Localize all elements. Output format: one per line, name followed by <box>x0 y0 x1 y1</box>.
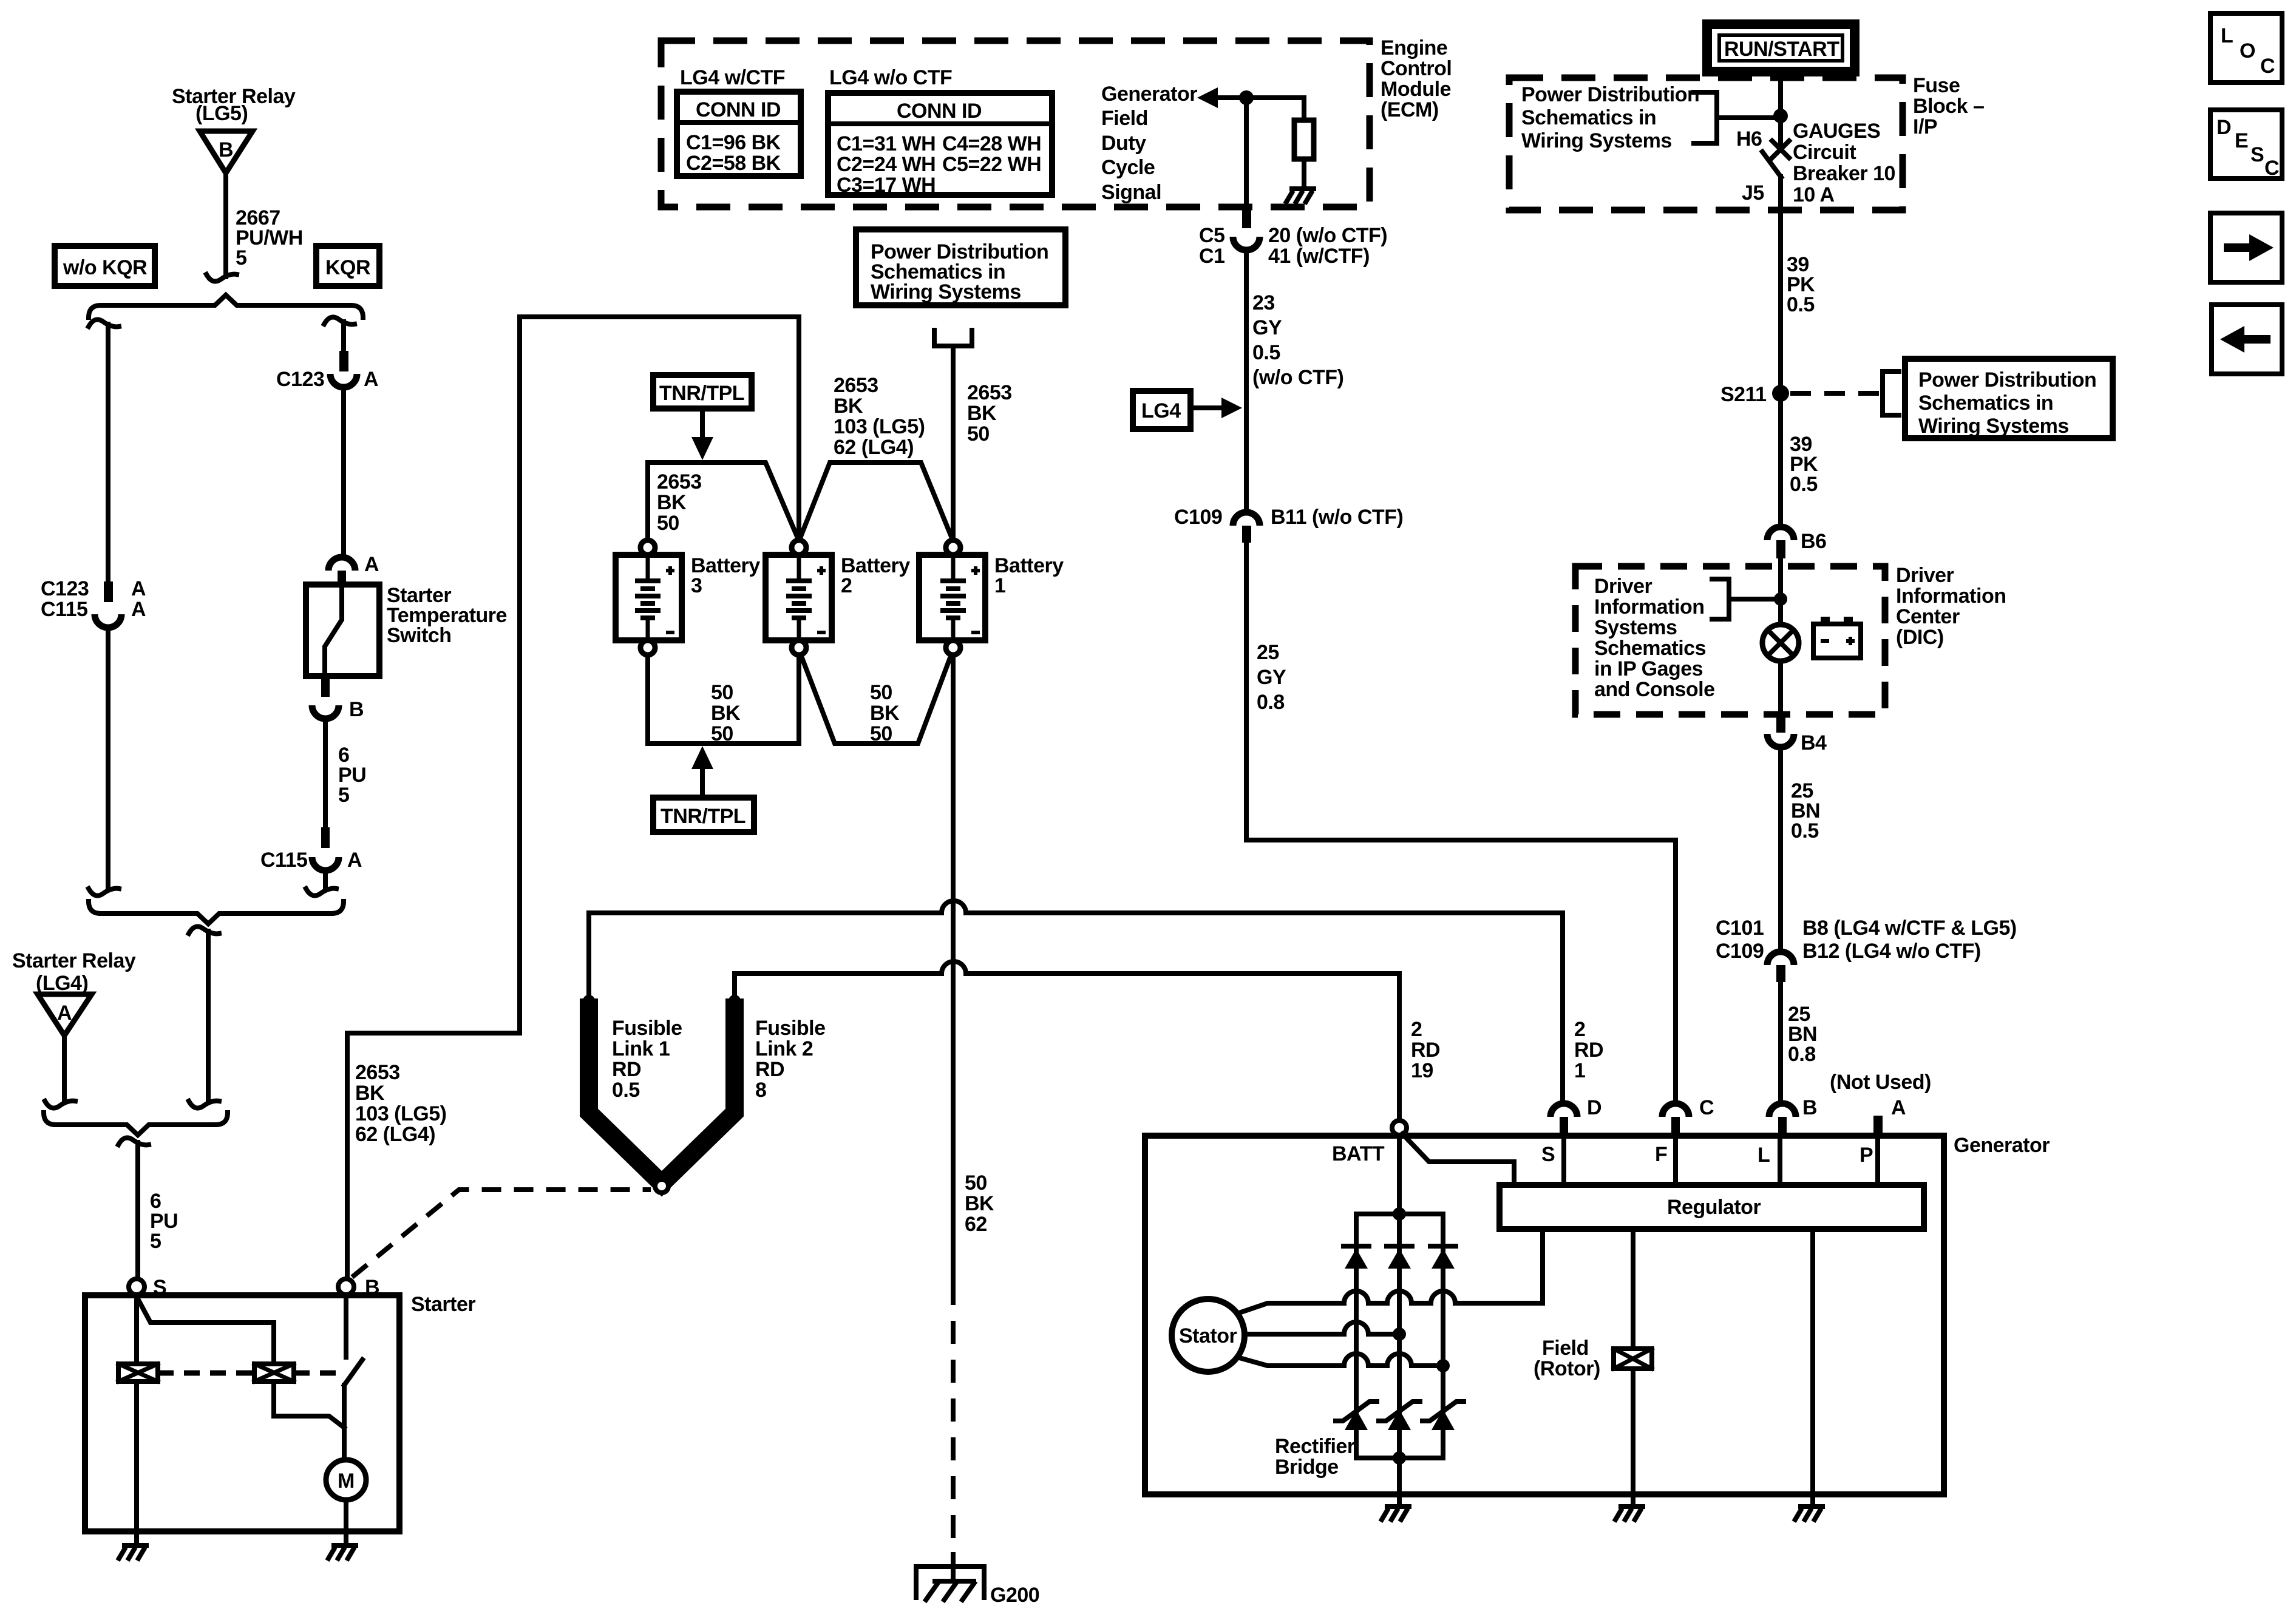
svg-text:KQR: KQR <box>325 256 370 279</box>
BATT internal link to regulator <box>1402 1134 1514 1185</box>
svg-text:B: B <box>219 138 233 161</box>
svg-text:0.5: 0.5 <box>1791 819 1819 842</box>
svg-text:(Rotor): (Rotor) <box>1533 1357 1600 1380</box>
svg-text:and Console: and Console <box>1594 678 1715 701</box>
connector C109/B11 socket <box>1233 512 1260 526</box>
svg-text:BK: BK <box>355 1082 385 1105</box>
wire label 2653 BK 50 (battery 1) <box>967 381 1012 446</box>
wire start curl <box>118 1137 149 1145</box>
generator A pin (not used) <box>1873 1116 1883 1135</box>
TNR/TPL tag (top) <box>653 375 752 408</box>
battery 3 <box>616 540 682 655</box>
connector C115 pin <box>321 827 330 848</box>
DIC dashed box <box>1575 566 1885 714</box>
svg-text:Block –: Block – <box>1913 95 1984 118</box>
svg-text:B12 (LG4 w/o CTF): B12 (LG4 w/o CTF) <box>1802 940 1981 963</box>
splice S211 <box>1720 383 1789 406</box>
svg-text:C: C <box>1699 1096 1714 1119</box>
wire motor to ground <box>344 1500 348 1543</box>
solenoid linkage dashed <box>158 1371 338 1376</box>
wire label 2653 BK 50 (battery 3) <box>657 470 702 535</box>
svg-text:in IP Gages: in IP Gages <box>1594 657 1703 680</box>
wire <box>1302 98 1306 120</box>
svg-text:Module: Module <box>1381 78 1451 101</box>
junction <box>1393 1451 1406 1465</box>
LG4 tag arrow <box>1190 398 1242 418</box>
harness merge brace <box>44 1113 228 1135</box>
svg-text:C115: C115 <box>260 849 307 872</box>
fuse block label <box>1913 74 1984 138</box>
wire label 2653 BK 103 62 <box>834 374 925 459</box>
svg-text:Schematics in: Schematics in <box>1521 106 1656 129</box>
fusible link junction node <box>655 1179 668 1193</box>
svg-text:Power Distribution: Power Distribution <box>1521 83 1699 106</box>
svg-text:103 (LG5): 103 (LG5) <box>834 415 925 438</box>
nav prev arrow <box>2212 305 2282 374</box>
junction <box>1239 90 1254 105</box>
svg-text:Driver: Driver <box>1594 575 1652 598</box>
rectifier top bus <box>1356 1212 1443 1216</box>
fuse block dashed box <box>1509 78 1903 210</box>
connector labels C123 C115 A A <box>41 577 146 621</box>
wire field coil to ground <box>1631 1369 1635 1504</box>
svg-text:BK: BK <box>657 491 687 514</box>
wire <box>341 387 346 556</box>
svg-text:Rectifier: Rectifier <box>1275 1435 1355 1458</box>
svg-text:0.5: 0.5 <box>1790 473 1818 496</box>
connector C socket <box>1662 1103 1689 1117</box>
connector C5/C1 socket <box>1233 237 1260 250</box>
junction <box>1393 1207 1406 1221</box>
connector B socket <box>1769 1103 1796 1117</box>
svg-text:TNR/TPL: TNR/TPL <box>661 805 746 828</box>
junction <box>1774 592 1787 606</box>
ECM label <box>1381 36 1452 121</box>
wire battery 2 to battery 1 feed <box>801 463 951 537</box>
svg-text:A: A <box>131 598 146 621</box>
wire from triangle B <box>223 173 228 277</box>
svg-text:A: A <box>1891 1096 1906 1119</box>
battery 1 label <box>994 554 1064 597</box>
connector labels C5 C1 20 41 <box>1199 224 1387 268</box>
svg-text:BK: BK <box>965 1192 994 1215</box>
wire label 39 PK 0.5 <box>1790 433 1818 496</box>
svg-text:BATT: BATT <box>1332 1142 1385 1165</box>
power distribution schematics box (right) <box>1905 359 2113 438</box>
svg-text:Starter: Starter <box>411 1293 475 1316</box>
svg-text:C2=24 WH: C2=24 WH <box>837 153 936 176</box>
svg-text:Starter Relay: Starter Relay <box>12 949 136 972</box>
connector C123-A socket <box>330 374 357 387</box>
starter solenoid hold-in coil <box>254 1364 294 1381</box>
svg-text:(LG4): (LG4) <box>36 972 88 995</box>
svg-text:Stator: Stator <box>1179 1324 1237 1347</box>
svg-text:25: 25 <box>1257 641 1279 664</box>
nav box DESC <box>2210 110 2282 180</box>
ground (starter solenoid) <box>118 1545 149 1561</box>
stator phase wire 2 <box>1245 1322 1399 1334</box>
connector C123/C115 socket <box>95 614 121 628</box>
harness option brace <box>89 295 363 317</box>
svg-text:Breaker 10: Breaker 10 <box>1793 162 1895 185</box>
svg-text:L: L <box>2221 24 2233 47</box>
wire end curl <box>189 1101 219 1108</box>
field rotor label <box>1533 1337 1600 1380</box>
svg-text:2: 2 <box>1574 1018 1585 1041</box>
svg-text:B4: B4 <box>1801 731 1827 754</box>
wire ECM field signal <box>1244 98 1249 210</box>
svg-text:Signal: Signal <box>1101 181 1161 204</box>
generator box <box>1145 1136 1944 1494</box>
wire start curl <box>189 926 219 934</box>
wire BATT down to rectifier <box>1397 1135 1402 1458</box>
nav box LOC <box>2210 13 2282 83</box>
svg-text:C101: C101 <box>1716 917 1764 940</box>
diode top right <box>1430 1246 1456 1269</box>
rectifier bridge label <box>1275 1435 1355 1479</box>
wire coil to ground <box>134 1381 139 1543</box>
connector B6 pin <box>1776 540 1785 558</box>
resistor (ECM internal pull-up) <box>1294 120 1314 159</box>
circuit breaker arm <box>1762 152 1781 177</box>
svg-text:Wiring Systems: Wiring Systems <box>1918 415 2069 438</box>
svg-text:1: 1 <box>994 574 1005 597</box>
nav next arrow <box>2210 213 2282 282</box>
svg-text:B11 (w/o CTF): B11 (w/o CTF) <box>1271 506 1403 529</box>
junction H6 <box>1773 109 1788 123</box>
wire label 6 PU 5 <box>150 1190 178 1253</box>
svg-text:62 (LG4): 62 (LG4) <box>834 436 914 459</box>
svg-text:2653: 2653 <box>355 1061 400 1084</box>
junction fusible link 2 <box>729 995 741 1007</box>
junction <box>1393 1327 1406 1341</box>
rectifier bottom bus <box>1356 1456 1443 1460</box>
junction <box>1436 1359 1450 1372</box>
svg-text:P: P <box>1860 1144 1873 1167</box>
svg-text:BK: BK <box>870 702 900 725</box>
svg-text:0.5: 0.5 <box>1787 293 1815 316</box>
svg-text:RD: RD <box>755 1058 784 1081</box>
svg-text:62: 62 <box>965 1213 987 1236</box>
wire fusible link 1 to generator S <box>589 901 1563 1103</box>
ground (field) <box>1614 1507 1645 1522</box>
svg-text:BK: BK <box>834 395 863 418</box>
starter contact blade <box>344 1360 362 1385</box>
svg-text:C5=22 WH: C5=22 WH <box>942 153 1041 176</box>
battery 3 label <box>691 554 760 597</box>
svg-text:Duty: Duty <box>1101 132 1146 155</box>
TNR/TPL arrow (top) <box>691 408 713 460</box>
svg-text:C1: C1 <box>1199 245 1224 268</box>
wire fusible link 2 to generator BATT <box>735 961 1399 1120</box>
connector C pin <box>1671 1117 1680 1135</box>
stator phase wire 1 <box>1237 1229 1543 1314</box>
svg-text:Switch: Switch <box>387 624 452 647</box>
svg-text:C1=96 BK: C1=96 BK <box>686 131 781 154</box>
svg-text:A: A <box>364 368 378 391</box>
CONN ID table (w/o CTF) <box>828 93 1052 197</box>
svg-text:50: 50 <box>870 722 892 745</box>
connector labels C115 A <box>260 849 362 872</box>
wire bracket to battery 1 <box>951 346 956 539</box>
svg-text:C109: C109 <box>1174 506 1222 529</box>
bracket S211 <box>1883 371 1899 415</box>
wire C101 to generator L <box>1778 982 1783 1103</box>
wire <box>1217 95 1304 100</box>
svg-text:Control: Control <box>1381 57 1452 80</box>
wire <box>106 628 110 887</box>
starter S terminal <box>129 1276 166 1299</box>
svg-text:(DIC): (DIC) <box>1896 626 1944 649</box>
svg-text:BK: BK <box>711 702 741 725</box>
dashed link starter B to fusible link node <box>352 1190 651 1277</box>
dashed splice link <box>1790 391 1881 396</box>
svg-text:50: 50 <box>711 722 733 745</box>
starter solenoid pull-in coil <box>118 1364 158 1381</box>
connector B6 socket <box>1767 527 1794 540</box>
fuse block power distribution label <box>1521 83 1699 152</box>
wire dashed to G200 <box>951 1282 956 1554</box>
connector D socket <box>1550 1103 1577 1117</box>
ground (rectifier) <box>1381 1507 1411 1522</box>
wire end curl <box>306 889 336 896</box>
fusible link 1 label <box>612 1017 682 1102</box>
svg-text:w/o KQR: w/o KQR <box>63 256 147 279</box>
svg-text:5: 5 <box>236 246 246 269</box>
svg-text:0.8: 0.8 <box>1257 691 1285 714</box>
wire from hold-in coil to motor <box>274 1381 344 1428</box>
wire from battery 2 to starter B <box>347 317 799 1279</box>
connector C109/B11 pin <box>1242 526 1251 543</box>
wire label 6 PU 5 <box>338 744 366 807</box>
rectifier right vertical <box>1441 1214 1445 1458</box>
option tag KQR <box>316 246 379 286</box>
wire lamp to B4 <box>1778 661 1783 716</box>
wire label 2 RD 1 <box>1574 1018 1603 1082</box>
generator field signal arrow <box>1197 87 1218 108</box>
svg-text:5: 5 <box>338 784 349 807</box>
svg-text:Systems: Systems <box>1594 616 1677 639</box>
wire <box>1778 558 1783 625</box>
svg-text:Engine: Engine <box>1381 36 1447 59</box>
svg-text:C115: C115 <box>41 598 87 621</box>
connector labels C101 C109 B8 B12 <box>1716 917 2017 963</box>
connector C123/C115 pin <box>104 581 113 602</box>
rectifier left vertical <box>1354 1214 1359 1458</box>
ground (regulator) <box>1794 1507 1825 1522</box>
svg-text:GY: GY <box>1257 666 1286 689</box>
svg-text:GY: GY <box>1252 316 1282 339</box>
connector B pin <box>1778 1117 1787 1135</box>
wire battery 2/1 negative link <box>801 656 951 744</box>
svg-text:23: 23 <box>1252 291 1275 314</box>
svg-text:20 (w/o CTF): 20 (w/o CTF) <box>1268 224 1387 247</box>
svg-text:Link 1: Link 1 <box>612 1037 670 1060</box>
svg-text:Information: Information <box>1594 595 1704 619</box>
ground G200 <box>916 1552 984 1602</box>
svg-text:41 (w/CTF): 41 (w/CTF) <box>1268 245 1370 268</box>
svg-text:G200: G200 <box>990 1584 1039 1607</box>
wire L terminal to regulator <box>1778 1135 1782 1185</box>
svg-text:1: 1 <box>1574 1059 1585 1082</box>
svg-text:50: 50 <box>711 681 733 704</box>
svg-text:Power Distribution: Power Distribution <box>1918 368 2096 392</box>
svg-text:Link 2: Link 2 <box>755 1037 813 1060</box>
regulator box <box>1500 1185 1924 1229</box>
svg-text:103 (LG5): 103 (LG5) <box>355 1102 446 1125</box>
svg-text:L: L <box>1758 1144 1770 1167</box>
svg-text:H6: H6 <box>1736 127 1762 151</box>
svg-text:C109: C109 <box>1716 940 1764 963</box>
wire B4 to C101 <box>1778 747 1783 951</box>
connector C101/C109 pin <box>1776 965 1785 982</box>
svg-text:B: B <box>1802 1096 1817 1119</box>
svg-text:CONN ID: CONN ID <box>696 98 781 121</box>
svg-text:C3=17 WH: C3=17 WH <box>837 174 936 197</box>
connector B4 pin <box>1776 716 1785 733</box>
starter B terminal <box>338 1276 379 1299</box>
wire RUN/START to breaker <box>1778 72 1783 143</box>
wire <box>62 1036 67 1100</box>
fusible link 1 <box>589 1008 662 1184</box>
connector C115 socket <box>312 857 339 870</box>
svg-text:C: C <box>2264 157 2279 180</box>
fusible link 2 label <box>755 1017 826 1102</box>
wire label 39 PK 0.5 <box>1787 253 1815 316</box>
DIC label <box>1896 564 2006 649</box>
svg-text:C1=31 WH: C1=31 WH <box>837 132 936 155</box>
wire <box>206 931 211 1100</box>
wire breaker to S211 <box>1778 177 1783 389</box>
svg-text:RD: RD <box>1411 1039 1440 1062</box>
svg-text:50: 50 <box>870 681 892 704</box>
svg-text:I/P: I/P <box>1913 115 1937 138</box>
svg-text:Circuit: Circuit <box>1793 141 1856 164</box>
starter relay (LG5) label <box>172 85 296 125</box>
svg-text:2653: 2653 <box>657 470 702 493</box>
svg-text:C123: C123 <box>41 577 89 600</box>
wire label 25 BN 0.8 <box>1788 1003 1817 1066</box>
svg-text:A: A <box>57 1002 72 1025</box>
svg-text:(w/o CTF): (w/o CTF) <box>1252 366 1343 389</box>
connector B pin <box>321 676 330 697</box>
wire label 50 BK 50 <box>711 681 741 745</box>
wire bracket to breaker <box>1717 115 1781 120</box>
svg-text:B8 (LG4 w/CTF & LG5): B8 (LG4 w/CTF & LG5) <box>1802 917 2017 940</box>
svg-text:Information: Information <box>1896 585 2006 608</box>
svg-text:S: S <box>1541 1143 1555 1166</box>
battery 1 <box>919 540 985 655</box>
svg-text:62 (LG4): 62 (LG4) <box>355 1123 435 1146</box>
wire end curl <box>89 889 119 896</box>
wire F terminal to regulator <box>1673 1135 1678 1185</box>
svg-text:C4=28 WH: C4=28 WH <box>942 132 1041 155</box>
wire B into box <box>344 1295 348 1357</box>
wire S terminal to regulator <box>1561 1135 1566 1185</box>
svg-text:(Not Used): (Not Used) <box>1830 1071 1931 1094</box>
svg-text:Fuse: Fuse <box>1913 74 1960 97</box>
svg-text:Center: Center <box>1896 605 1960 628</box>
svg-text:50: 50 <box>967 422 990 446</box>
wire regulator to ground <box>1810 1229 1815 1504</box>
svg-text:LG4 w/o CTF: LG4 w/o CTF <box>829 66 952 89</box>
wire label 2 RD 19 <box>1411 1018 1440 1082</box>
svg-text:Generator: Generator <box>1954 1134 2050 1157</box>
wire <box>1302 159 1306 188</box>
option tag w/o KQR <box>55 246 155 286</box>
battery 2 <box>766 540 832 655</box>
connector C5/C1 pin <box>1242 210 1251 228</box>
wire KQR branch <box>341 322 346 351</box>
svg-text:B6: B6 <box>1801 530 1826 553</box>
starter box <box>85 1295 399 1531</box>
svg-text:50: 50 <box>965 1171 987 1195</box>
wire bracket to lamp <box>1729 597 1776 602</box>
svg-text:TNR/TPL: TNR/TPL <box>659 382 744 405</box>
svg-text:Field: Field <box>1101 107 1148 130</box>
svg-text:A: A <box>364 553 379 576</box>
bracket under power distribution box <box>934 330 972 346</box>
svg-text:(ECM): (ECM) <box>1381 98 1439 121</box>
wire P terminal to regulator <box>1875 1135 1880 1185</box>
fusible link 2 <box>662 1008 735 1184</box>
svg-text:2: 2 <box>1411 1018 1422 1041</box>
svg-text:Cycle: Cycle <box>1101 156 1155 179</box>
connector B socket <box>312 705 339 719</box>
svg-text:C123: C123 <box>276 368 324 391</box>
starter relay (LG4) label <box>12 949 136 995</box>
svg-text:8: 8 <box>755 1079 766 1102</box>
svg-text:C5: C5 <box>1199 224 1224 247</box>
connector B4 socket <box>1767 734 1794 747</box>
harness merge brace <box>89 901 344 924</box>
ECM dashed box <box>661 41 1370 207</box>
svg-text:CONN ID: CONN ID <box>897 100 982 123</box>
wire contact to motor <box>342 1385 347 1460</box>
ground (starter motor) <box>327 1545 358 1561</box>
svg-text:B: B <box>349 698 364 721</box>
stator phase wire 3 <box>1237 1354 1443 1366</box>
svg-text:Schematics in: Schematics in <box>1918 392 2053 415</box>
wire label 25 GY 0.8 <box>1257 641 1286 714</box>
wire <box>1244 250 1249 512</box>
svg-text:RD: RD <box>612 1058 641 1081</box>
wire end curl <box>45 1101 75 1108</box>
wire label 2667 PU/WH 5 <box>236 206 303 269</box>
junction fusible link 1 <box>583 995 595 1007</box>
wire label 50 BK 62 <box>965 1171 994 1236</box>
svg-text:50: 50 <box>657 512 679 535</box>
connector D pin <box>1560 1117 1568 1135</box>
svg-text:Fusible: Fusible <box>755 1017 826 1040</box>
wire S to coil <box>134 1295 139 1364</box>
svg-text:19: 19 <box>1411 1059 1433 1082</box>
wire battery 3 feed <box>648 463 797 539</box>
svg-text:2653: 2653 <box>834 374 878 397</box>
starter switch arm wire <box>137 1297 274 1364</box>
diode bottom middle <box>1379 1402 1420 1430</box>
circuit breaker contact X <box>1772 141 1789 158</box>
diode bottom left <box>1336 1402 1377 1430</box>
wire end curl <box>206 274 237 282</box>
wire label 2653 BK 103 (LG5) 62 (LG4) <box>355 1061 446 1146</box>
battery 2 label <box>841 554 910 597</box>
wire label 25 BN 0.5 <box>1791 779 1820 842</box>
wire label 50 BK 50 <box>870 681 900 745</box>
starter temperature switch box <box>306 585 379 676</box>
wire <box>323 870 328 887</box>
svg-text:Generator: Generator <box>1101 83 1197 106</box>
